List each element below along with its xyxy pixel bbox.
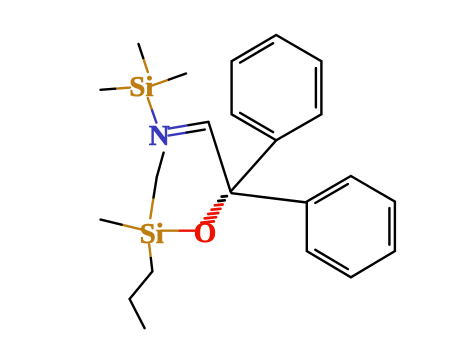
phenyl ring A [232, 35, 322, 140]
bond Si1-CH3 right [152, 74, 187, 86]
bond Si2 propyl down [130, 245, 153, 329]
bond O-Si2 [161, 229, 195, 231]
svg-text:Si: Si [140, 218, 164, 250]
svg-text:O: O [194, 217, 217, 249]
phenyl ring B [307, 176, 395, 277]
bond Si1-CH3 up [139, 44, 148, 72]
double bond N=C imine [169, 122, 209, 136]
bond C to phenyl ring A [231, 140, 277, 191]
bond Si1-N [148, 98, 157, 123]
bond Si1-CH3 left [101, 88, 131, 90]
bond imine C to quaternary C [209, 122, 231, 192]
svg-text:N: N [149, 120, 170, 152]
bond Si2 methyl left [101, 220, 143, 230]
bond C to phenyl ring B [232, 193, 307, 202]
hashed wedge C-O [201, 196, 227, 223]
bond Si2 ethyl up [150, 153, 163, 219]
svg-text:Si: Si [129, 71, 153, 103]
